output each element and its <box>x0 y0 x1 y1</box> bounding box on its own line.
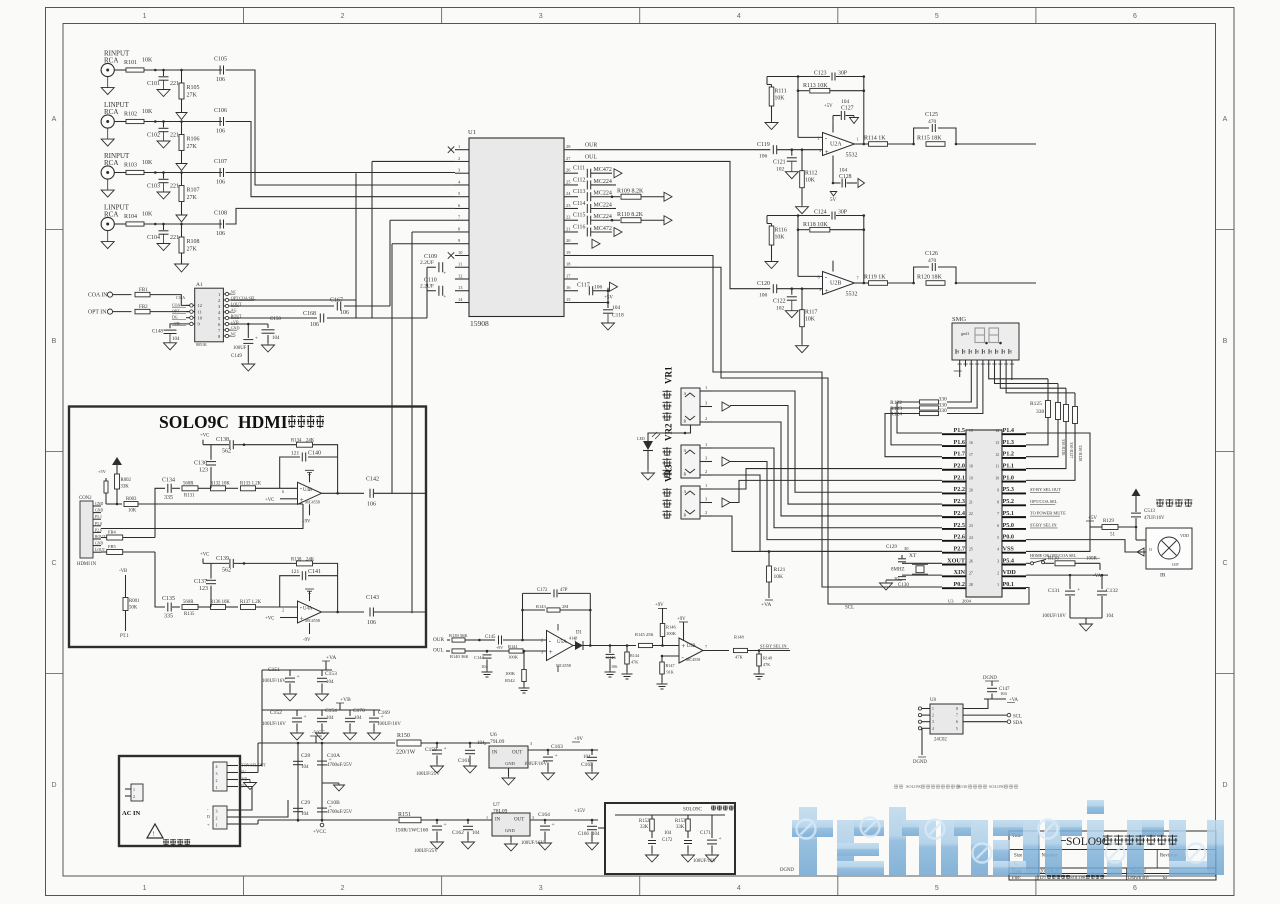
svg-text:2: 2 <box>541 638 543 643</box>
svg-text:P0.0: P0.0 <box>1003 534 1015 541</box>
svg-text:100UF/16V: 100UF/16V <box>262 679 286 684</box>
svg-text:hz: hz <box>1163 875 1167 880</box>
svg-text:R149: R149 <box>763 656 772 661</box>
svg-text:C130: C130 <box>898 583 909 588</box>
svg-text:OUL: OUL <box>585 154 597 160</box>
svg-text:2M: 2M <box>562 604 568 609</box>
svg-text:Drawn By:: Drawn By: <box>1128 876 1149 881</box>
svg-text:P1.4: P1.4 <box>1003 427 1015 434</box>
svg-text:8051K: 8051K <box>196 342 207 347</box>
svg-text:47K: 47K <box>763 662 770 667</box>
svg-text:VR1: VR1 <box>664 366 674 384</box>
svg-text:R113 10K: R113 10K <box>803 83 828 89</box>
svg-text:330 R127: 330 R127 <box>1069 442 1074 458</box>
svg-text:HOME OR OPT/COA SEL: HOME OR OPT/COA SEL <box>1030 553 1077 558</box>
svg-text:104: 104 <box>272 336 280 341</box>
svg-text:C102: C102 <box>147 133 160 139</box>
svg-text:C119: C119 <box>757 142 770 148</box>
svg-text:C136: C136 <box>194 460 207 466</box>
svg-text:106: 106 <box>759 293 768 299</box>
svg-text:DGND: DGND <box>983 676 997 681</box>
svg-text:D:\: D:\ <box>1040 876 1047 881</box>
svg-text:-VB: -VB <box>119 569 127 574</box>
svg-text:OPT/COA SEL: OPT/COA SEL <box>1030 499 1058 504</box>
svg-text:50K: 50K <box>129 606 138 611</box>
svg-text:14: 14 <box>995 429 999 433</box>
svg-text:104: 104 <box>354 716 362 721</box>
svg-text:100UF/16V: 100UF/16V <box>524 762 547 767</box>
svg-text:5532: 5532 <box>846 292 858 298</box>
svg-text:5V: 5V <box>830 198 837 203</box>
svg-text:IR: IR <box>1160 573 1166 579</box>
svg-text:106: 106 <box>310 322 319 328</box>
svg-text:2: 2 <box>282 608 284 613</box>
svg-text:100R: 100R <box>1086 556 1098 561</box>
svg-text:562: 562 <box>222 449 231 455</box>
svg-text:562: 562 <box>222 567 231 573</box>
svg-text:123: 123 <box>199 586 208 592</box>
svg-text:102: 102 <box>776 306 785 312</box>
svg-text:100UF/16V: 100UF/16V <box>521 841 544 846</box>
svg-text:-9V: -9V <box>303 519 311 524</box>
svg-text:COA IN: COA IN <box>88 293 108 299</box>
svg-text:104: 104 <box>481 664 489 669</box>
svg-text:19: 19 <box>969 477 973 481</box>
svg-text:15: 15 <box>969 429 973 433</box>
svg-text:C106: C106 <box>214 108 227 114</box>
svg-text:XT: XT <box>909 553 917 559</box>
svg-text:R117: R117 <box>805 310 817 316</box>
svg-text:C149: C149 <box>231 354 242 359</box>
svg-text:P2.6: P2.6 <box>953 534 965 541</box>
svg-text:5: 5 <box>935 885 939 892</box>
svg-text:1: 1 <box>458 144 460 149</box>
svg-text:FB1: FB1 <box>139 288 148 293</box>
svg-text:MC224: MC224 <box>594 202 612 208</box>
svg-text:106: 106 <box>340 310 349 316</box>
svg-text:VR3: VR3 <box>664 464 674 482</box>
svg-text:SOLO9C: SOLO9C <box>159 412 229 432</box>
svg-text:C164: C164 <box>538 812 550 818</box>
svg-text:7: 7 <box>956 714 958 718</box>
svg-text:MC224: MC224 <box>594 179 612 185</box>
svg-text:LED: LED <box>637 436 645 441</box>
svg-text:VR2: VR2 <box>664 423 674 441</box>
svg-text:22: 22 <box>566 215 570 220</box>
svg-text:R001: R001 <box>129 599 140 604</box>
svg-text:470: 470 <box>928 258 937 264</box>
svg-text:R106: R106 <box>187 137 200 143</box>
svg-text:C129: C129 <box>886 545 897 550</box>
svg-text:OPT IN: OPT IN <box>88 310 107 316</box>
svg-text:10K: 10K <box>774 574 784 580</box>
svg-text:C143: C143 <box>366 595 379 601</box>
svg-text:C172: C172 <box>537 588 548 593</box>
svg-text:FB2: FB2 <box>139 305 148 310</box>
svg-text:MC4558: MC4558 <box>686 657 700 662</box>
svg-text:XOUT: XOUT <box>947 557 966 564</box>
svg-text:221: 221 <box>170 133 179 139</box>
svg-text:R133 1.2K: R133 1.2K <box>240 481 262 486</box>
svg-text:Size: Size <box>1014 854 1022 859</box>
svg-text:R124: R124 <box>890 412 902 418</box>
svg-text:R132 10K: R132 10K <box>210 481 230 486</box>
svg-text:1: 1 <box>216 823 218 828</box>
svg-text:P2.5: P2.5 <box>953 522 965 529</box>
svg-text:R146: R146 <box>666 625 677 630</box>
svg-text:6: 6 <box>818 275 820 280</box>
svg-text:C127: C127 <box>841 106 854 112</box>
svg-text:1: 1 <box>143 885 147 892</box>
svg-text:2: 2 <box>705 469 707 474</box>
svg-text:SMG: SMG <box>952 316 966 323</box>
svg-text:1: 1 <box>932 707 934 711</box>
svg-text:U6: U6 <box>490 732 497 738</box>
svg-text:U5A: U5A <box>557 640 567 645</box>
svg-text:R116: R116 <box>775 228 787 234</box>
svg-text:C114: C114 <box>573 201 585 207</box>
svg-text:C118: C118 <box>612 313 624 319</box>
svg-text:7: 7 <box>857 276 859 281</box>
svg-text:IN: IN <box>492 751 498 756</box>
svg-text:47K: 47K <box>631 660 638 665</box>
svg-text:C140: C140 <box>308 451 321 457</box>
svg-text:C: C <box>1222 560 1227 567</box>
svg-text:R120 18K: R120 18K <box>917 275 943 281</box>
svg-text:30P: 30P <box>838 210 847 216</box>
svg-text:2: 2 <box>484 741 486 746</box>
svg-text:P5.0: P5.0 <box>1003 522 1015 529</box>
svg-text:GND: GND <box>231 326 240 331</box>
svg-text:+5V: +5V <box>604 296 613 301</box>
svg-text:1: 1 <box>133 787 135 792</box>
svg-text:104: 104 <box>841 99 850 105</box>
svg-text:13: 13 <box>995 441 999 445</box>
svg-text:106: 106 <box>367 620 376 626</box>
svg-text:SOLO9C: SOLO9C <box>683 808 703 813</box>
svg-text:C163: C163 <box>551 744 563 750</box>
svg-text:R131: R131 <box>184 493 195 498</box>
svg-text:P2.0: P2.0 <box>953 463 965 470</box>
svg-text:1: 1 <box>705 483 707 488</box>
svg-text:10K: 10K <box>142 212 153 218</box>
svg-text:C144: C144 <box>474 655 485 660</box>
svg-text:C107: C107 <box>214 159 227 165</box>
svg-text:gnd1: gnd1 <box>961 331 969 336</box>
svg-text:+: + <box>297 674 300 680</box>
svg-text:3: 3 <box>819 148 821 153</box>
svg-text:+: + <box>444 822 447 828</box>
svg-text:O/P: O/P <box>1172 562 1179 567</box>
svg-text:10K: 10K <box>805 317 816 323</box>
svg-text:123: 123 <box>199 467 208 473</box>
svg-text:+: + <box>304 714 307 720</box>
svg-text:C116: C116 <box>573 224 585 230</box>
svg-text:C120: C120 <box>757 281 770 287</box>
svg-text:-9V: -9V <box>303 638 311 643</box>
svg-text:R101: R101 <box>124 60 137 66</box>
svg-text:P0.2: P0.2 <box>953 581 965 588</box>
svg-text:4700uF/25V: 4700uF/25V <box>327 810 353 815</box>
svg-text:U4B: U4B <box>303 488 312 493</box>
svg-text:R119 1K: R119 1K <box>864 275 886 281</box>
svg-text:106: 106 <box>594 285 603 291</box>
svg-text:C138: C138 <box>216 437 229 443</box>
svg-text:+: + <box>549 648 553 656</box>
svg-text:A: A <box>52 116 57 123</box>
svg-text:C171: C171 <box>700 831 711 836</box>
svg-text:C166: C166 <box>578 832 589 837</box>
svg-text:U1: U1 <box>468 129 476 136</box>
svg-text:106: 106 <box>216 129 225 135</box>
svg-text:O: O <box>1149 547 1152 552</box>
svg-text:C101: C101 <box>147 81 160 87</box>
svg-text:2: 2 <box>133 794 135 799</box>
svg-text:P5.1: P5.1 <box>1003 510 1015 517</box>
svg-text:C132: C132 <box>1106 588 1118 594</box>
svg-text:R130: R130 <box>958 784 967 789</box>
svg-text:R150: R150 <box>397 733 410 739</box>
svg-text:4: 4 <box>737 13 741 20</box>
svg-text:100UF/16V: 100UF/16V <box>1042 614 1066 619</box>
svg-text:XIN: XIN <box>954 569 966 576</box>
svg-text:79L09: 79L09 <box>490 739 505 745</box>
svg-text:P2.4: P2.4 <box>953 510 965 517</box>
svg-text:R110 8.2K: R110 8.2K <box>617 212 644 218</box>
svg-text:47P: 47P <box>560 588 568 593</box>
svg-text:B: B <box>52 338 57 345</box>
svg-text:VDD: VDD <box>1180 533 1189 538</box>
svg-text:DGND: DGND <box>780 868 794 873</box>
svg-text:100UF/16V: 100UF/16V <box>693 859 716 864</box>
svg-text:4: 4 <box>932 727 934 731</box>
svg-text:C165: C165 <box>581 762 593 768</box>
svg-text:R111: R111 <box>775 89 787 95</box>
svg-text:104: 104 <box>326 680 334 685</box>
svg-text:ST-BY SEL OUT: ST-BY SEL OUT <box>1030 487 1061 492</box>
svg-text:C151: C151 <box>268 667 280 673</box>
svg-text:R125: R125 <box>1030 401 1042 407</box>
svg-text:C154: C154 <box>325 708 337 714</box>
svg-text:12: 12 <box>198 303 203 308</box>
svg-text:104: 104 <box>592 832 600 837</box>
svg-text:R152: R152 <box>639 819 650 824</box>
svg-text:IN: IN <box>495 818 501 823</box>
svg-text:330 R126: 330 R126 <box>1061 439 1066 455</box>
svg-text:DGND: DGND <box>913 760 927 765</box>
svg-text:3: 3 <box>539 13 543 20</box>
svg-text:100K: 100K <box>508 655 519 660</box>
svg-text:220/1W: 220/1W <box>396 750 416 756</box>
svg-text:B: B <box>1223 338 1228 345</box>
svg-text:SOLO9C: SOLO9C <box>1066 836 1110 848</box>
svg-text:R138: R138 <box>291 557 302 562</box>
svg-text:10K: 10K <box>128 509 137 514</box>
svg-text:C105: C105 <box>214 57 227 63</box>
svg-text:C169: C169 <box>378 710 390 716</box>
svg-text:C513: C513 <box>1144 509 1155 514</box>
svg-text:4148: 4148 <box>569 636 577 641</box>
svg-text:FB4: FB4 <box>108 530 117 535</box>
svg-text:U3: U3 <box>948 599 954 604</box>
svg-text:1: 1 <box>216 785 218 790</box>
svg-text:COA: COA <box>172 303 180 307</box>
svg-text:104: 104 <box>172 337 180 342</box>
svg-text:R103: R103 <box>124 163 137 169</box>
svg-text:11: 11 <box>995 465 999 469</box>
svg-text:C29: C29 <box>301 800 310 806</box>
svg-text:P2.1: P2.1 <box>953 474 965 481</box>
svg-text:P1.5: P1.5 <box>953 427 965 434</box>
svg-text:U8: U8 <box>930 698 936 703</box>
svg-text:2: 2 <box>705 416 707 421</box>
svg-text:21: 21 <box>969 500 973 504</box>
svg-text:18: 18 <box>969 465 973 469</box>
svg-text:C159: C159 <box>425 747 437 753</box>
svg-text:1: 1 <box>997 583 999 587</box>
svg-text:C134: C134 <box>162 477 175 483</box>
svg-text:A: A <box>684 391 687 396</box>
svg-text:+: + <box>682 642 686 650</box>
svg-text:330: 330 <box>1036 409 1045 415</box>
svg-text:+: + <box>255 336 258 342</box>
svg-text:R112: R112 <box>805 171 817 177</box>
svg-text:7: 7 <box>705 645 707 650</box>
svg-text:335: 335 <box>164 614 173 620</box>
svg-text:C161: C161 <box>458 758 470 764</box>
svg-text:221: 221 <box>170 81 179 87</box>
svg-text:C126: C126 <box>925 251 938 257</box>
svg-text:C141: C141 <box>308 569 321 575</box>
svg-text:C135: C135 <box>162 596 175 602</box>
svg-text:SCL: SCL <box>1013 715 1022 720</box>
svg-text:47UF/16V: 47UF/16V <box>1144 516 1165 521</box>
svg-text:11: 11 <box>198 309 203 314</box>
svg-text:A: A <box>684 489 687 494</box>
svg-text:106: 106 <box>216 77 225 83</box>
svg-text:15908: 15908 <box>470 319 489 328</box>
svg-text:C28: C28 <box>301 753 310 759</box>
svg-text:335: 335 <box>164 495 173 501</box>
svg-text:+VCC: +VCC <box>313 830 327 835</box>
svg-text:+VA: +VA <box>761 602 771 608</box>
svg-text:104: 104 <box>664 831 672 836</box>
svg-text:9: 9 <box>997 488 999 492</box>
svg-text:23: 23 <box>969 524 973 528</box>
svg-text:4700uF/25V: 4700uF/25V <box>327 763 353 768</box>
svg-text:R105: R105 <box>187 85 200 91</box>
svg-text:21: 21 <box>566 226 570 231</box>
svg-text:D: D <box>207 814 210 819</box>
svg-text:SOLO9C: SOLO9C <box>906 784 922 789</box>
svg-text:+5V: +5V <box>98 469 107 474</box>
svg-text:P1.6: P1.6 <box>953 439 965 446</box>
svg-text:47K: 47K <box>735 655 744 660</box>
svg-text:121: 121 <box>291 569 300 575</box>
svg-text:8MHZ: 8MHZ <box>891 567 905 572</box>
svg-text:OUR: OUR <box>433 637 444 643</box>
svg-text:12: 12 <box>995 453 999 457</box>
svg-text:C128: C128 <box>839 174 852 180</box>
svg-text:AC IN: AC IN <box>122 810 141 817</box>
svg-text:150R/1WC160: 150R/1WC160 <box>395 828 429 834</box>
svg-text:C112: C112 <box>573 177 585 183</box>
svg-text:VDD: VDD <box>1003 569 1017 576</box>
svg-text:104: 104 <box>301 812 309 817</box>
svg-text:+15V: +15V <box>574 809 586 814</box>
svg-text:100UF/16V: 100UF/16V <box>262 722 286 727</box>
svg-text:106: 106 <box>611 664 617 669</box>
svg-text:2: 2 <box>818 136 820 141</box>
svg-text:R147: R147 <box>666 663 675 668</box>
svg-text:P5.1: P5.1 <box>95 515 102 519</box>
svg-text:+: + <box>719 836 722 842</box>
svg-text:30: 30 <box>904 546 909 551</box>
svg-text:27: 27 <box>969 571 973 575</box>
svg-text:10K: 10K <box>142 109 153 115</box>
svg-text:NC: NC <box>231 332 237 337</box>
svg-text:4: 4 <box>997 548 999 552</box>
svg-text:MC224: MC224 <box>594 191 612 197</box>
svg-text:+: + <box>555 753 558 759</box>
svg-text:R109 8.2K: R109 8.2K <box>617 189 644 195</box>
svg-text:106: 106 <box>367 501 376 507</box>
svg-text:4: 4 <box>737 885 741 892</box>
svg-text:+VC: +VC <box>200 552 209 557</box>
svg-text:R140 36K: R140 36K <box>450 654 469 659</box>
svg-text:R108: R108 <box>187 239 200 245</box>
svg-text:OUT: OUT <box>512 751 522 756</box>
svg-text:HDMI: HDMI <box>238 412 288 432</box>
svg-text:B: B <box>684 513 687 518</box>
svg-text:2604: 2604 <box>962 599 972 604</box>
svg-text:U2B: U2B <box>830 281 841 287</box>
svg-text:20: 20 <box>969 488 973 492</box>
svg-text:27K: 27K <box>187 247 198 253</box>
svg-text:104: 104 <box>583 755 591 760</box>
svg-text:+: + <box>825 287 829 295</box>
svg-text:22: 22 <box>969 512 973 516</box>
svg-text:+9V: +9V <box>574 737 583 742</box>
svg-text:C170: C170 <box>353 708 365 714</box>
svg-text:100UF: 100UF <box>233 346 247 351</box>
svg-text:C124: C124 <box>814 210 827 216</box>
svg-text:C10A: C10A <box>176 296 185 300</box>
svg-text:470: 470 <box>928 119 937 125</box>
svg-text:2: 2 <box>705 510 707 515</box>
svg-text:+5V: +5V <box>824 104 833 109</box>
svg-text:6: 6 <box>282 489 284 494</box>
svg-text:P2.3: P2.3 <box>953 498 965 505</box>
svg-text:P5.3: P5.3 <box>1003 486 1015 493</box>
svg-text:+: + <box>825 148 829 156</box>
svg-text:221: 221 <box>170 235 179 241</box>
svg-text:TO POWER MUTE: TO POWER MUTE <box>1030 511 1066 516</box>
svg-text:560R: 560R <box>183 481 194 486</box>
svg-text:C145: C145 <box>485 635 496 640</box>
svg-text:C117: C117 <box>577 283 590 289</box>
svg-text:2: 2 <box>997 571 999 575</box>
svg-text:1: 1 <box>486 815 488 820</box>
svg-text:11: 11 <box>458 262 462 267</box>
svg-text:+VC: +VC <box>265 617 274 622</box>
svg-text:+: + <box>552 822 555 828</box>
svg-text:+VB: +VB <box>340 697 351 703</box>
svg-text:P1.1: P1.1 <box>1003 463 1015 470</box>
svg-text:24C02: 24C02 <box>934 738 947 743</box>
svg-text:DG: DG <box>172 316 178 320</box>
svg-text:R102: R102 <box>124 112 137 118</box>
